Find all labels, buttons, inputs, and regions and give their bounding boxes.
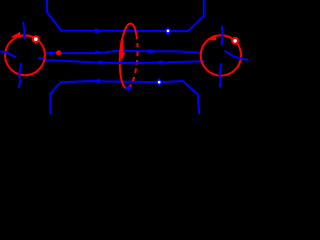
wire: bottom-left lead + line 4 + bottom-right lead: [50, 81, 199, 114]
line 3 segment over the flux loop: [110, 62, 143, 64]
current arrow on loop 2: [206, 35, 217, 41]
arrowhead on line 2 right (rightward): [149, 49, 157, 54]
generator diamond on line 4: [155, 78, 163, 86]
flux loop ellipse: dashed hidden part: [128, 35, 137, 88]
winding stub over loop 1 left: [0, 51, 16, 57]
wire: top-left lead + line 1 + top-right lead: [47, 0, 204, 31]
current arrow on loop 1: [11, 32, 21, 38]
terminal dot on loop 1: [32, 35, 40, 43]
wire: line 2 (inner pair, upper): [46, 51, 201, 53]
arrowhead on line 3 right (leftward): [154, 60, 163, 65]
flux direction arrow (down): [120, 41, 123, 54]
arrowhead on line 2 middle (rightward): [95, 50, 103, 55]
arrowhead on line 2 near left loop (rightward): [50, 51, 57, 55]
flux loop ellipse: solid front part: [120, 23, 137, 88]
winding stub over loop 1 top: [23, 22, 25, 39]
node dot on line 2: [56, 50, 61, 55]
terminal dot on loop 2: [231, 37, 239, 45]
marker at flux loop bottom: [125, 85, 131, 91]
arrowhead on line 1 (rightward): [95, 28, 104, 33]
wire: line 3 (inner pair, lower): [39, 58, 205, 63]
loop 2 (right red circle): [201, 35, 241, 75]
winding stub over loop 2 top: [222, 26, 223, 46]
arrowhead on line 4 (leftward): [92, 79, 101, 84]
winding stub over loop 2 bottom: [220, 63, 222, 87]
loop 1 (left red circle): [5, 35, 45, 75]
winding stub over loop 2 right: [225, 51, 249, 60]
arrowhead on line 3 left (leftward): [94, 60, 103, 65]
winding stub over loop 1 bottom: [19, 63, 21, 88]
generator diamond on line 1: [164, 27, 173, 36]
